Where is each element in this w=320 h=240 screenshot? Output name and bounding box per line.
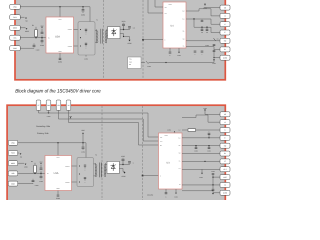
junction VCC-U1 top ch2 [57, 142, 58, 143]
svg-text:mon: mon [129, 61, 132, 63]
pulse transformer driver block ch1 [78, 22, 95, 55]
wire top feed A to U4 ch1 [155, 0, 163, 7]
transformer T2 ch2 [94, 153, 108, 177]
svg-text:U1A: U1A [54, 172, 59, 175]
wire CL2 net ch2 [182, 168, 221, 170]
wire SO1 stub ch1 [15, 16, 25, 18]
secondary side controller U3 ch2 [159, 129, 183, 189]
connector pin MOD left edge ch1 [10, 25, 21, 30]
wire D21 out upper ch2 [119, 164, 129, 166]
svg-text:D2: D2 [217, 39, 219, 41]
svg-text:Vee: Vee [182, 19, 185, 21]
wire U3 bottom stub 1 ch2 [165, 189, 167, 192]
wire iso ref to U4 ch1 [143, 39, 163, 41]
junction Vee branch [193, 18, 194, 19]
capacitor C9 ch1 [206, 27, 209, 34]
wire INB to U1 ch2 [13, 172, 45, 174]
svg-text:CL: CL [224, 48, 226, 51]
svg-text:VDD: VDD [69, 116, 72, 118]
capacitor C27 ch2 [208, 131, 211, 138]
wire U1-block lower ch2 [72, 181, 78, 183]
wire U1-block upper ch2 [72, 165, 78, 167]
wire Vce monitor long ch1 [149, 62, 215, 64]
wire SO net ch2 [182, 145, 221, 147]
capacitor C6 ch1 [128, 26, 135, 29]
ground stub below block ch1 [84, 55, 88, 60]
wire VCC bus ch2 [13, 142, 86, 144]
wire GND pin stub ch2 [13, 183, 33, 185]
wire VCE pin stub ch2 [213, 176, 221, 178]
connector pin MOD left edge ch2 [8, 161, 18, 166]
mode select symbol ch1 [25, 28, 30, 33]
junction GL 1 [201, 27, 202, 28]
wire resistor net ch2 [182, 129, 221, 131]
wire top pin C feed ch2 [69, 110, 159, 145]
connector pin CL2 right edge ch2 [220, 167, 230, 172]
connector pin GND left edge ch1 [10, 46, 21, 51]
wire COM pin stub ch2 [213, 192, 221, 194]
svg-text:GH: GH [182, 11, 184, 13]
junction GL 2 [206, 27, 207, 28]
connector pin E right edge ch2 [220, 135, 230, 140]
wire gate low net ch1 [194, 27, 221, 32]
connector pin INA left edge ch1 [10, 35, 21, 40]
connector pin C right edge ch1 [220, 22, 230, 27]
wire MOD stub ch1 [15, 27, 26, 29]
svg-text:GH: GH [178, 129, 180, 131]
svg-text:C: C [165, 196, 166, 198]
wire pin3 stub ch2 [13, 162, 24, 164]
wire iso ref to U3 ch2 [143, 175, 159, 177]
connector pin GND left edge ch2 [8, 181, 18, 186]
wire U3 bottom net ch2 [182, 191, 213, 193]
connector pin VE right edge ch1 [220, 5, 230, 10]
isolation barrier dash-dot line (transformer, ch2) [101, 106, 103, 200]
svg-text:CL: CL [179, 160, 181, 162]
wire CL net ch1 [186, 47, 221, 50]
connector pin CM top edge ch2 [46, 100, 51, 110]
ground below U3 ch2 [174, 193, 178, 199]
wire U2 top stub ch1 [59, 7, 61, 17]
resistor R22 gate ch2 [188, 129, 196, 132]
wire GND pin stub ch1 [15, 47, 34, 49]
transformer T1 ch1 [95, 18, 108, 43]
capacitor C11 below CL ch1 [213, 49, 216, 57]
wire D1 out upper ch1 [120, 29, 130, 31]
wire U2-block lower ch1 [74, 45, 79, 47]
wire CL net ch2 [182, 153, 221, 155]
isolation barrier dash-dot line (transformer, ch1) [103, 0, 105, 79]
connector pin At right edge ch2 [220, 182, 230, 187]
mode symbol ch2 [24, 164, 28, 169]
svg-text:C9: C9 [206, 32, 208, 34]
junction JT ch2 [204, 161, 205, 162]
svg-text:C8: C8 [201, 32, 203, 34]
svg-text:E: E [165, 39, 166, 41]
capacitor below U4 pin ch1 [169, 52, 172, 57]
wire E net ch2 [182, 137, 221, 139]
svg-text:GL: GL [183, 30, 185, 32]
wire U2-block upper ch1 [74, 29, 79, 31]
capacitor C1 on VCC bus [81, 7, 85, 17]
junction SO 2 ch2 [208, 145, 209, 146]
capacitor below U3 ch2 [165, 193, 168, 199]
connector pin COM right edge ch2 [220, 190, 230, 195]
wire top feed B to U4 ch1 [148, 0, 163, 13]
wire U4 bottom stub 1 ch1 [169, 48, 171, 51]
connector pin INB left edge ch2 [8, 171, 18, 176]
capacitor C10 above CL ch1 [205, 44, 215, 47]
capacitor C8 ch1 [201, 27, 204, 34]
capacitor C28 ch2 [194, 146, 198, 153]
connector pin G right edge ch2 [220, 120, 230, 125]
connector pin VD top edge ch2 [56, 100, 61, 110]
junction D1 out [123, 29, 124, 30]
wire U1 bottom stub ch2 [57, 191, 59, 195]
capacitor C24 ch2 [32, 179, 39, 187]
resistor R1 input [32, 24, 37, 37]
wire top pin B feed ch2 [59, 110, 159, 141]
junction At ch2 [212, 184, 213, 185]
connector pin CL right edge ch1 [220, 47, 230, 52]
junction R1-INA wire [35, 37, 36, 38]
wire VCC bus drop to block ch2 [85, 143, 87, 158]
ground arrow top COM ch2 [47, 112, 51, 117]
ground arrow COM ch1 [212, 59, 216, 64]
connector pin IN top edge ch2 [66, 100, 71, 110]
junction COM [213, 57, 214, 58]
secondary side controller U4 ch1 [163, 2, 186, 48]
junction isolation reference ch1 [142, 39, 144, 41]
svg-text:Block diagram of the 1SC0450V: Block diagram of the 1SC0450V driver cor… [15, 89, 101, 95]
capacitor C25 VISO ch2 [121, 155, 126, 165]
junction D21 out ch2 [122, 164, 123, 165]
wire COM pin stub ch1 [214, 57, 221, 59]
isolation barrier dash-dot line 2 (ch1) [142, 0, 144, 79]
svg-text:Vce: Vce [165, 13, 168, 15]
pulse transformer driver block ch2 [77, 158, 94, 187]
svg-text:CL: CL [224, 152, 226, 155]
wire to pin VE ch2 [205, 113, 221, 115]
connector pin VCC left edge ch2 [8, 140, 18, 145]
status output symbol ch1 [25, 18, 28, 23]
ground branch ch2 [199, 169, 203, 179]
resistor R21 input ch2 [31, 160, 36, 172]
wire SO net ch1 [186, 40, 221, 42]
svg-text:U2A: U2A [55, 36, 60, 39]
connector pin C right edge ch2 [220, 128, 230, 133]
connector pin VE right edge ch2 [220, 112, 230, 117]
junction VCC-U2 top [59, 6, 60, 7]
svg-text:JT: JT [224, 160, 226, 163]
connector pin VCE right edge ch2 [220, 175, 230, 180]
svg-text:COM: COM [223, 192, 228, 195]
svg-text:COM: COM [223, 56, 228, 59]
status symbol ch2 [20, 153, 23, 158]
connector pin SO right edge ch2 [220, 143, 230, 148]
isolation barrier dash-dot line 2 (ch2) [142, 106, 144, 200]
wire INA to U2 ch1 [15, 37, 46, 39]
capacitor C26 ch2 [128, 161, 135, 164]
connector pin G right edge ch1 [220, 13, 230, 18]
junction Vce wire [165, 62, 166, 63]
ground below U4 ch1 [177, 52, 181, 57]
capacitor C23 ch2 [39, 173, 43, 182]
wire At net ch2 [182, 184, 221, 186]
connector pin SO1 left edge ch1 [10, 15, 21, 20]
svg-text:SO1: SO1 [13, 16, 16, 19]
capacitor C22 ch2 [39, 161, 43, 174]
wire top pin COM stub ch2 [48, 110, 50, 112]
threshold symbol right of note box [141, 61, 152, 68]
junction C2-INA wire [41, 37, 42, 38]
op-amp input stage U2A ch1 [46, 17, 74, 53]
capacitor C2 input filter [40, 24, 44, 37]
wire gate high step ch2 [182, 115, 221, 122]
junction E net ch2 [208, 137, 209, 138]
note box N1 ch1 [128, 57, 141, 69]
junction VCE ch2 [212, 177, 213, 178]
wire to pin VE ch1 [204, 7, 221, 9]
connector pin JT right edge ch2 [220, 159, 230, 164]
wire Vee net ch1 [186, 19, 221, 24]
junction isolation reference ch2 [142, 175, 144, 177]
bottom schematic panel frame (channel 2) [7, 105, 225, 205]
svg-text:CL2: CL2 [223, 168, 226, 171]
wire VCC bus drop to pulse block [89, 7, 91, 22]
capacitor C13 ch1 [201, 51, 204, 56]
wire D21 out lower ch2 [119, 169, 124, 172]
connector pin SO right edge ch1 [220, 38, 230, 43]
junction VCC stack bus ch2 [82, 142, 83, 143]
wire D1 out lower ch1 [120, 34, 130, 37]
power indicator top right ch1 [203, 3, 207, 10]
capacitor C29 ch2 [207, 146, 211, 153]
ground symbol below U1A ch2 [56, 195, 60, 200]
wire U4 bottom stub 2 ch1 [178, 48, 180, 51]
svg-text:C: C [169, 55, 170, 57]
diode D2 status ch1 [214, 38, 219, 40]
connector pin SO2 left edge ch2 [8, 151, 18, 156]
connector pin VT top edge ch2 [36, 100, 41, 110]
label above U3 ch2 [167, 129, 175, 133]
VDD symbol ch2 [69, 116, 72, 118]
wire U3 bottom stub 2 ch2 [175, 189, 177, 192]
junction R21 ch2 [34, 173, 35, 174]
svg-text:E: E [160, 175, 161, 177]
ground symbol below U2A [58, 58, 62, 63]
wire JT net ch2 [182, 160, 221, 162]
svg-text:E2: E2 [179, 168, 181, 170]
rectifier diode box D21 ch2 [107, 161, 119, 173]
svg-text:Vce: Vce [160, 141, 163, 143]
svg-text:CL: CL [183, 45, 185, 47]
junction D1 lower out [123, 36, 124, 37]
capacitor C4 gnd decoupling [33, 43, 40, 51]
wire Vee vertical branch ch1 [193, 19, 195, 27]
wire U2 bottom stub ch1 [59, 53, 61, 58]
svg-text:Mo: Mo [160, 145, 162, 147]
connector pin E right edge ch1 [220, 30, 230, 35]
svg-text:Vee: Vee [178, 137, 181, 139]
connector pin CL right edge ch2 [220, 151, 230, 156]
wire VCC bus ch1 [15, 6, 90, 8]
wire pin2 stub ch2 [13, 152, 19, 154]
junction VCC bus at C1 [82, 6, 83, 7]
connector pin COM right edge ch1 [220, 55, 230, 60]
svg-text:Primary Side: Primary Side [37, 132, 49, 135]
junction C22 ch2 [40, 173, 41, 174]
capacitor C21 vcc ch2 [81, 143, 85, 154]
ground arrow mid column ch2 [122, 172, 126, 179]
capacitor C31 below At ch2 [212, 185, 215, 195]
capacitor C12 ch1 [194, 51, 197, 56]
capacitor C3 below input wire [40, 38, 44, 47]
junction SO 1 ch2 [195, 145, 196, 146]
capacitor C5 VISO ch1 [122, 20, 127, 30]
connector pin VCC left edge ch1 [10, 4, 21, 9]
svg-text:Secondary Side: Secondary Side [36, 125, 51, 128]
ground arrow mid column ch1 [128, 37, 132, 45]
capacitor C7 gate ch1 [201, 19, 204, 22]
wire gate high step ch1 [186, 9, 221, 16]
VCC arrow stack ch2 [81, 129, 85, 143]
svg-text:SO2: SO2 [11, 152, 14, 155]
op-amp input stage U1A ch2 [45, 156, 72, 191]
power indicator top right ch2 [203, 107, 207, 114]
capacitor stack C30 ch2 [211, 171, 215, 185]
wire top pin A feed ch2 [39, 110, 159, 137]
rectifier diode box D1 ch1 [108, 27, 120, 39]
wire U1 top stub ch2 [57, 143, 59, 156]
top schematic panel frame (channel 1) [15, 0, 225, 80]
svg-text:GL: GL [179, 145, 181, 147]
